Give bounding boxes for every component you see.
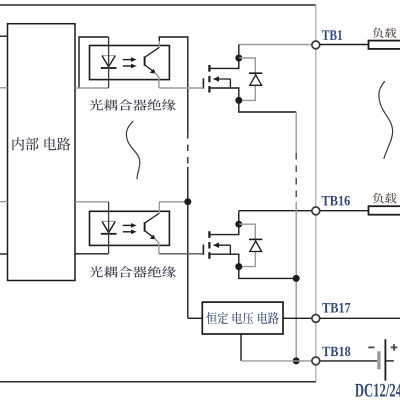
- load 1 resistor box: [369, 41, 400, 49]
- optocoupler U1 emitter tail wire: [155, 72, 159, 88]
- optocoupler U2 light arrows: [123, 224, 132, 226]
- label TB17: [322, 303, 350, 313]
- label TB16: [322, 196, 350, 206]
- bus dashed section: [187, 132, 189, 167]
- optocoupler U1 light arrows: [123, 59, 132, 61]
- terminal TB17 circle: [312, 315, 320, 323]
- Q1 source to negative rail wire: [239, 100, 296, 112]
- optocoupler U1 cathode return wire: [75, 87, 109, 89]
- load 16 wire: [320, 210, 369, 212]
- optocoupler U1 collector wire to bus: [159, 37, 188, 41]
- battery positive stub wire: [385, 360, 393, 362]
- MOSFET Q2 gate bar: [202, 245, 204, 255]
- output wire to TB row (Q2 drain): [239, 210, 312, 212]
- optocoupler U1 anode routing wire: [79, 37, 109, 88]
- node dot: drain of Q1: [235, 55, 242, 62]
- optocoupler U2 collector wire to bus: [159, 201, 188, 203]
- gate bus / collector bus (vertical): [187, 36, 189, 132]
- bus to constant-voltage box wire: [188, 317, 203, 319]
- terminal TB16 circle: [312, 207, 320, 215]
- terminal TB1 circle: [312, 41, 320, 49]
- MOSFET Q2 source lead: [209, 254, 238, 266]
- optocoupler isolation label 光耦合器绝缘 (lower): [89, 266, 175, 278]
- MOSFET Q1 channel segments: [208, 65, 210, 72]
- battery BT1 negative plate: [377, 351, 380, 369]
- rail junction dot (Q2 source): [293, 275, 300, 282]
- left input stub wires: [0, 35, 8, 37]
- optocoupler isolation label 光耦合器绝缘 (upper): [89, 99, 175, 111]
- bus junction dot: [184, 198, 191, 205]
- node dot: source of Q2: [235, 263, 242, 270]
- optocoupler U2 LED D2: [102, 221, 115, 232]
- terminal TB18 circle: [312, 357, 320, 365]
- MOSFET Q1 gate bar: [202, 78, 204, 88]
- optocoupler U2 phototransistor Q2a: [144, 222, 146, 231]
- battery plus sign: [391, 346, 398, 348]
- rail junction dot (TB18 row): [293, 357, 300, 364]
- MOSFET Q2 channel segments: [208, 231, 210, 238]
- optocoupler U2 package box: [90, 211, 170, 245]
- body diode branch wire (gray loop): [239, 58, 256, 100]
- MOSFET Q1 source lead: [209, 88, 238, 100]
- node dot: source of Q1: [235, 97, 242, 104]
- optocoupler U2 LED through-lead: [108, 202, 110, 254]
- module right edge (terminal strip): [315, 5, 317, 41]
- body diode branch wire (gray loop): [239, 224, 256, 266]
- body diode D2b: [249, 238, 262, 240]
- load 1 wire: [320, 44, 369, 46]
- MOSFET Q2 drain lead: [210, 224, 239, 234]
- internal circuit box U0: [8, 24, 76, 281]
- TB18 wire to battery: [320, 360, 377, 362]
- MOSFET Q1 drain lead: [210, 58, 239, 68]
- box bottom return wire: [240, 334, 242, 361]
- battery minus sign: [368, 346, 374, 348]
- optocoupler U2 emitter tail wire: [155, 238, 159, 254]
- rail dashed section: [295, 153, 297, 202]
- Q2 source to negative rail wire: [239, 267, 296, 279]
- optocoupler U1 package box: [90, 46, 170, 80]
- optocoupler U1 LED D1: [102, 56, 115, 67]
- optocoupler U2 anode feed wire: [75, 201, 109, 203]
- box output wire to TB17: [283, 317, 312, 319]
- break squiggle (optocoupler column): [126, 121, 139, 179]
- MOSFET Q2 body arrow: [214, 244, 231, 246]
- battery voltage label DC12/24V: [355, 384, 400, 397]
- optocoupler U2 cathode return wire: [75, 253, 109, 255]
- output wire to TB row (Q1 drain): [239, 44, 312, 46]
- body diode D1b: [249, 72, 262, 74]
- module top border: [0, 4, 316, 6]
- constant voltage circuit label 恒定电压电路: [206, 312, 278, 324]
- label TB18: [322, 347, 350, 357]
- negative/common rail (vertical): [295, 112, 297, 153]
- label TB1: [322, 30, 342, 40]
- MOSFET Q1 body arrow: [214, 78, 231, 80]
- constant voltage circuit box U3: [202, 302, 283, 334]
- optocoupler U1 LED through-lead: [108, 37, 110, 88]
- break squiggle (load column): [379, 81, 393, 159]
- node dot: drain of Q2: [235, 221, 242, 228]
- load 1 label 负载: [372, 28, 396, 38]
- MOSFET gate wire from U1 emitter: [159, 87, 203, 89]
- module bottom border: [0, 381, 316, 383]
- load 16 resistor box: [369, 206, 400, 215]
- battery BT1 positive plate: [384, 339, 386, 380]
- MOSFET gate wire from U2 emitter: [159, 253, 203, 255]
- load 16 label 负载: [373, 193, 397, 204]
- internal circuit label 内部电路: [12, 137, 70, 150]
- optocoupler U1 phototransistor Q1a: [144, 56, 146, 65]
- TB17 external wire: [320, 317, 400, 319]
